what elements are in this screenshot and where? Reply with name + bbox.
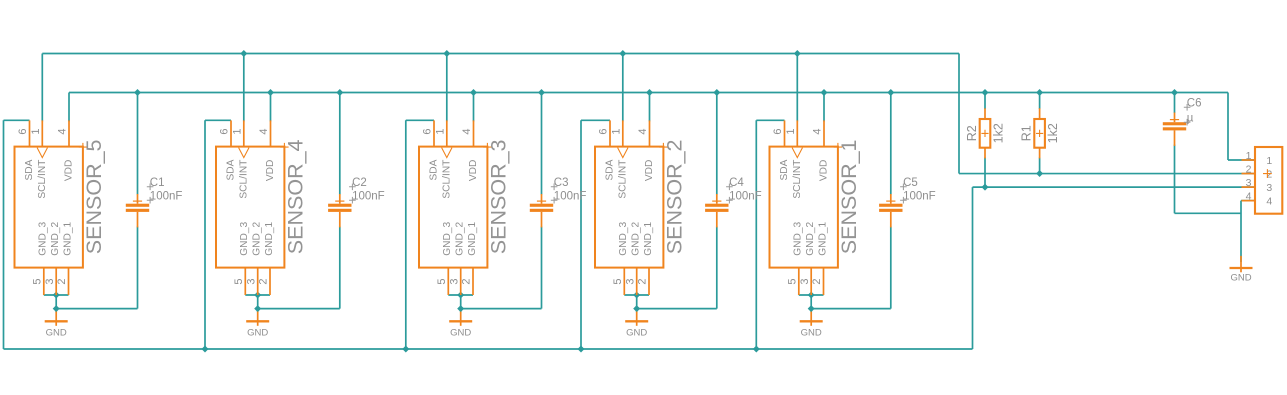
connector pin stub 3 — [1242, 186, 1256, 188]
SENSOR_1 body outline — [770, 147, 838, 268]
svg-text:C6: C6 — [1187, 98, 1202, 110]
svg-text:2: 2 — [811, 278, 823, 284]
svg-text:C3: C3 — [554, 177, 569, 189]
svg-text:3: 3 — [799, 278, 811, 284]
C4 bottom lead — [716, 212, 718, 228]
svg-text:GND_3: GND_3 — [442, 221, 453, 255]
SENSOR_1 pin 3 stub — [810, 268, 812, 295]
svg-text:3: 3 — [1246, 177, 1252, 189]
SENSOR_2 pin 3 stub — [636, 268, 638, 295]
svg-text:5: 5 — [233, 278, 245, 284]
SENSOR_3 origin cross — [483, 143, 491, 151]
SENSOR_3 body outline — [419, 147, 487, 268]
junction VDD x=985 — [982, 89, 989, 96]
svg-text:5: 5 — [31, 278, 43, 284]
junction VDD x=824.0 — [821, 89, 828, 96]
svg-text:3: 3 — [624, 278, 636, 284]
ground symbol GND — [45, 312, 68, 339]
wire SDA from SENSOR_2 pin6 — [581, 119, 610, 121]
svg-text:R2: R2 — [965, 125, 979, 141]
svg-text:GND: GND — [626, 328, 647, 339]
junction SDA bus x=405.8 — [402, 346, 409, 353]
SENSOR_5 body outline — [15, 147, 83, 268]
SENSOR_4 pin 1 marker — [239, 148, 249, 158]
junction GND cap tie SENSOR_4 — [254, 305, 261, 312]
SENSOR_4 pin 2 stub — [269, 268, 271, 295]
wire SDA from SENSOR_3 pin6 — [406, 119, 434, 121]
svg-text:VDD: VDD — [64, 160, 75, 182]
svg-text:2: 2 — [637, 278, 649, 284]
svg-text:GND: GND — [46, 328, 67, 339]
svg-text:5: 5 — [436, 278, 448, 284]
wire VDD drop to R2 — [984, 93, 986, 110]
SENSOR_2 origin cross — [659, 143, 667, 151]
ground symbol GND — [449, 312, 472, 339]
wire R1 bottom to SCL line — [1039, 158, 1041, 174]
C5 bottom plate — [879, 209, 902, 212]
C3 bottom plate — [530, 209, 553, 212]
svg-text:4: 4 — [637, 129, 649, 135]
svg-text:GND_1: GND_1 — [467, 221, 478, 255]
SENSOR_5 pin 6 stub — [29, 120, 31, 146]
wire GND lead SENSOR_4 — [257, 295, 259, 312]
SENSOR_3 pin 2 stub — [472, 268, 474, 295]
svg-text:GND_1: GND_1 — [264, 221, 275, 255]
C1 origin cross — [133, 200, 142, 202]
SENSOR_4 pin 6 stub — [230, 120, 232, 146]
GND bar — [449, 320, 472, 322]
svg-text:SCL/INT: SCL/INT — [238, 160, 249, 199]
junction VDD x=339.8 — [336, 89, 343, 96]
C1 top lead — [137, 194, 139, 204]
junction SCL x=797.3 — [794, 50, 801, 57]
C1 top plate — [126, 204, 149, 207]
C6 top plate — [1163, 122, 1186, 125]
svg-text:2: 2 — [1246, 163, 1252, 175]
wire GND to C5 bottom — [811, 308, 891, 310]
wire VDD drop to C1 — [137, 93, 139, 195]
R1 bottom lead — [1039, 148, 1041, 159]
SENSOR_4 origin cross — [280, 143, 288, 151]
svg-text:SDA: SDA — [429, 159, 440, 180]
SENSOR_2 pin 1 marker — [618, 148, 628, 158]
svg-text:VDD: VDD — [819, 160, 830, 182]
IC SENSOR_4 — [216, 120, 308, 295]
svg-text:C5: C5 — [903, 177, 918, 189]
SENSOR_1 pin 5 stub — [798, 268, 800, 295]
wire SDA from SENSOR_1 pin6 — [756, 119, 784, 121]
svg-text:SENSOR_4: SENSOR_4 — [284, 139, 308, 254]
C1 value label — [147, 197, 154, 204]
IC SENSOR_5 — [15, 120, 107, 295]
capacitor C1 — [126, 177, 183, 227]
resistor R2 — [965, 108, 1006, 158]
C2 value label — [349, 197, 356, 204]
wire SCL drop to SENSOR_5 pin1 — [41, 54, 43, 122]
wire VDD drop to R1 — [1039, 93, 1041, 110]
C5 origin cross — [886, 200, 895, 202]
svg-text:1: 1 — [785, 129, 797, 135]
junction R1 bottom / SCL — [1036, 170, 1043, 177]
C4 value label — [726, 197, 733, 204]
wire C6 bottom drop — [1174, 145, 1176, 214]
junction GND pins SENSOR_3 — [457, 292, 464, 299]
svg-text:1: 1 — [1246, 150, 1252, 162]
wire GND lead SENSOR_1 — [810, 295, 812, 312]
wire GND lead SENSOR_5 — [55, 295, 57, 312]
wire SCL drop to SENSOR_1 pin1 — [796, 54, 798, 122]
svg-text:100nF: 100nF — [352, 191, 385, 203]
C6 value label — [1184, 119, 1191, 126]
wire SDA vertical drop SENSOR_4 — [204, 120, 206, 349]
SENSOR_5 pin 1 marker — [37, 148, 47, 158]
SENSOR_4 body outline — [216, 147, 284, 268]
C5 top plate — [879, 204, 902, 207]
svg-text:GND: GND — [801, 328, 822, 339]
svg-text:3: 3 — [245, 278, 257, 284]
svg-text:SDA: SDA — [605, 159, 616, 180]
svg-text:GND: GND — [450, 328, 471, 339]
svg-text:6: 6 — [598, 129, 610, 135]
SENSOR_4 pin 4 stub — [270, 120, 272, 146]
svg-text:C4: C4 — [729, 177, 744, 189]
wire GND pins tie SENSOR_4 — [245, 294, 270, 296]
connector origin cross — [1263, 169, 1272, 178]
svg-text:SENSOR_5: SENSOR_5 — [82, 139, 106, 254]
wire VDD drop to SENSOR_5 pin4 — [68, 93, 70, 122]
C5 bottom lead — [890, 212, 892, 228]
R2 body — [980, 119, 991, 148]
svg-text:5: 5 — [786, 278, 798, 284]
junction SDA bus x=581 — [578, 346, 585, 353]
svg-text:1: 1 — [434, 129, 446, 135]
wire GND to C3 bottom — [461, 308, 542, 310]
svg-text:3: 3 — [1266, 182, 1272, 194]
junction SCL x=622.8 — [619, 50, 626, 57]
C5 name label — [900, 184, 907, 191]
SENSOR_2 pin 6 stub — [609, 120, 611, 146]
wire SDA to connector pin3 — [973, 186, 1256, 188]
C2 top plate — [328, 204, 351, 207]
svg-text:1k2: 1k2 — [992, 123, 1006, 143]
svg-text:4: 4 — [812, 129, 824, 135]
wire SDA from SENSOR_4 pin6 — [205, 119, 231, 121]
wire GND pins tie SENSOR_5 — [44, 294, 69, 296]
wire GND to C2 bottom — [258, 308, 340, 310]
junction VDD x=1174.5 — [1171, 89, 1178, 96]
wire SDA vertical drop SENSOR_5 — [3, 120, 5, 349]
wire VDD drop to SENSOR_4 pin4 — [270, 93, 272, 122]
C2 name label — [349, 184, 356, 191]
C3 origin cross — [537, 200, 546, 202]
wire GND lead SENSOR_2 — [636, 295, 638, 312]
wire VDD drop to C6 — [1174, 93, 1176, 114]
svg-text:SDA: SDA — [779, 159, 790, 180]
wire SCL horizontal top bus — [42, 53, 959, 55]
wire VDD horizontal bus — [69, 92, 1228, 94]
SENSOR_3 pin 1 marker — [442, 148, 452, 158]
svg-text:6: 6 — [422, 129, 434, 135]
capacitor C4 — [705, 177, 762, 227]
GND lead — [460, 312, 462, 326]
svg-text:SDA: SDA — [24, 159, 35, 180]
wire VDD drop to C4 — [716, 93, 718, 195]
svg-text:4: 4 — [1246, 190, 1252, 202]
svg-text:GND_1: GND_1 — [643, 221, 654, 255]
wire C5 bottom riser — [890, 227, 892, 309]
SENSOR_1 pin 2 stub — [823, 268, 825, 295]
wire VDD drop to SENSOR_2 pin4 — [649, 93, 651, 122]
junction GND pins SENSOR_2 — [633, 292, 640, 299]
svg-text:4: 4 — [461, 129, 473, 135]
svg-text:µ: µ — [1187, 113, 1194, 125]
wire VDD drop to C3 — [541, 93, 543, 195]
GND bar — [246, 320, 269, 322]
C1 bottom plate — [126, 209, 149, 212]
C3 value label — [551, 197, 558, 204]
svg-text:3: 3 — [44, 278, 56, 284]
svg-text:GND_3: GND_3 — [239, 221, 250, 255]
R1 top lead — [1039, 108, 1041, 119]
svg-text:GND_1: GND_1 — [62, 221, 73, 255]
wire SCL drop to SENSOR_2 pin1 — [622, 54, 624, 122]
C4 top plate — [705, 204, 728, 207]
svg-text:R1: R1 — [1019, 125, 1033, 141]
junction VDD x=890.8 — [887, 89, 894, 96]
wire SCL drop to SENSOR_4 pin1 — [243, 54, 245, 122]
GND lead — [1240, 256, 1242, 272]
C3 top plate — [530, 204, 553, 207]
svg-text:1: 1 — [1266, 155, 1272, 167]
svg-text:GND_2: GND_2 — [631, 221, 642, 255]
C4 origin cross — [712, 200, 721, 202]
wire GND to C1 bottom — [56, 308, 137, 310]
svg-text:SENSOR_2: SENSOR_2 — [663, 139, 687, 254]
wire SDA vertical drop SENSOR_1 — [755, 120, 757, 349]
svg-text:SENSOR_1: SENSOR_1 — [837, 139, 861, 254]
GND lead — [55, 312, 57, 326]
C1 name label — [147, 184, 154, 191]
junction GND cap tie SENSOR_3 — [457, 305, 464, 312]
C3 bottom lead — [541, 212, 543, 228]
SENSOR_2 body outline — [595, 147, 663, 268]
wire VDD drop to SENSOR_1 pin4 — [823, 93, 825, 122]
wire SCL right riser — [958, 54, 960, 174]
GND bar — [800, 320, 823, 322]
wire SCL drop to SENSOR_3 pin1 — [446, 54, 448, 122]
wire SCL to connector pin2 — [959, 173, 1255, 175]
ground symbol GND — [800, 312, 823, 339]
svg-text:6: 6 — [17, 129, 29, 135]
R1 origin cross — [1036, 130, 1043, 137]
SENSOR_2 pin 2 stub — [648, 268, 650, 295]
svg-text:100nF: 100nF — [150, 191, 183, 203]
junction VDD x=716.8 — [713, 89, 720, 96]
SENSOR_5 pin 5 stub — [43, 268, 45, 295]
svg-text:GND_3: GND_3 — [38, 221, 49, 255]
SENSOR_1 pin 6 stub — [784, 120, 786, 146]
C3 top lead — [541, 194, 543, 204]
R2 top lead — [984, 108, 986, 119]
junction VDD x=541.5 — [538, 89, 545, 96]
ground symbol GND — [1230, 256, 1253, 283]
svg-text:SCL/INT: SCL/INT — [441, 160, 452, 199]
wire GND lead SENSOR_3 — [460, 295, 462, 312]
junction GND pins SENSOR_1 — [808, 292, 815, 299]
wire VDD drop to C2 — [339, 93, 341, 195]
svg-text:GND_2: GND_2 — [50, 221, 61, 255]
C5 value label — [900, 197, 907, 204]
C5 top lead — [890, 194, 892, 204]
svg-text:C2: C2 — [352, 177, 367, 189]
resistor R1 — [1019, 108, 1060, 158]
svg-text:100nF: 100nF — [554, 191, 587, 203]
wire GND pins tie SENSOR_3 — [448, 294, 473, 296]
capacitor C5 — [879, 177, 936, 227]
junction SCL x=243.8 — [240, 50, 247, 57]
svg-text:GND: GND — [1230, 272, 1251, 283]
wire connector pin4 down to GND — [1240, 201, 1242, 262]
svg-text:VDD: VDD — [468, 160, 479, 182]
svg-text:1k2: 1k2 — [1046, 123, 1060, 143]
wire VDD drop to SENSOR_3 pin4 — [473, 93, 475, 122]
wire C1 bottom riser — [137, 227, 139, 309]
C1 bottom lead — [137, 212, 139, 228]
SENSOR_2 pin 1 stub — [622, 120, 624, 146]
GND lead — [257, 312, 259, 326]
connector pin stub 1 — [1242, 159, 1256, 161]
R2 origin cross — [981, 130, 988, 137]
junction VDD x=649.5 — [646, 89, 653, 96]
wire C3 bottom riser — [541, 227, 543, 309]
SENSOR_5 pin 1 stub — [41, 120, 43, 146]
capacitor C6 — [1163, 98, 1202, 146]
C2 origin cross — [335, 200, 344, 202]
SENSOR_2 pin 5 stub — [623, 268, 625, 295]
junction R2 bottom / SDA — [982, 184, 989, 191]
ground symbol GND — [246, 312, 269, 339]
svg-text:GND_2: GND_2 — [455, 221, 466, 255]
C6 name label — [1184, 104, 1191, 111]
wire SDA bottom bus — [4, 348, 973, 350]
connector pin stub 4 — [1242, 200, 1256, 202]
wire C6 to pin4 riser — [1175, 212, 1242, 214]
C6 bottom lead — [1174, 130, 1176, 146]
SENSOR_1 pin 4 stub — [823, 120, 825, 146]
svg-text:C1: C1 — [150, 177, 165, 189]
connector J1 body — [1255, 147, 1282, 214]
svg-text:SCL/INT: SCL/INT — [37, 160, 48, 199]
junction GND cap tie SENSOR_2 — [633, 305, 640, 312]
svg-text:GND_2: GND_2 — [252, 221, 263, 255]
svg-text:2: 2 — [258, 278, 270, 284]
IC SENSOR_1 — [770, 120, 862, 295]
junction SCL x=446.8 — [443, 50, 450, 57]
SENSOR_3 pin 1 stub — [446, 120, 448, 146]
C6 bottom plate — [1163, 127, 1186, 130]
SENSOR_5 pin 3 stub — [55, 268, 57, 295]
C2 top lead — [339, 194, 341, 204]
C6 top lead — [1174, 113, 1176, 123]
svg-text:4: 4 — [258, 129, 270, 135]
IC SENSOR_3 — [419, 120, 511, 295]
connector J1 — [1242, 147, 1283, 214]
wire VDD right riser — [1227, 93, 1229, 161]
svg-text:SCL/INT: SCL/INT — [792, 160, 803, 199]
svg-text:5: 5 — [612, 278, 624, 284]
junction GND pins SENSOR_5 — [53, 292, 60, 299]
junction VDD x=473.5 — [470, 89, 477, 96]
svg-text:VDD: VDD — [644, 160, 655, 182]
SENSOR_3 pin 6 stub — [433, 120, 435, 146]
SENSOR_3 pin 5 stub — [447, 268, 449, 295]
SENSOR_1 origin cross — [834, 143, 842, 151]
C2 bottom lead — [339, 212, 341, 228]
R1 body — [1034, 119, 1045, 148]
SENSOR_5 pin 4 stub — [68, 120, 70, 146]
SENSOR_4 pin 1 stub — [243, 120, 245, 146]
SENSOR_2 pin 4 stub — [649, 120, 651, 146]
GND lead — [810, 312, 812, 326]
svg-text:1: 1 — [30, 129, 42, 135]
junction GND cap tie SENSOR_5 — [53, 305, 60, 312]
GND bar — [1230, 267, 1253, 269]
capacitor C2 — [328, 177, 385, 227]
wire C4 bottom riser — [716, 227, 718, 309]
svg-text:GND_2: GND_2 — [805, 221, 816, 255]
ground symbol GND — [625, 312, 648, 339]
SENSOR_4 pin 3 stub — [257, 268, 259, 295]
svg-text:100nF: 100nF — [903, 191, 936, 203]
wire VDD drop to C5 — [890, 93, 892, 195]
junction VDD x=270.5 — [267, 89, 274, 96]
connector pin stub 2 — [1242, 173, 1256, 175]
C3 name label — [551, 184, 558, 191]
svg-text:100nF: 100nF — [729, 191, 762, 203]
wire SDA right riser — [972, 187, 974, 349]
svg-text:2: 2 — [56, 278, 68, 284]
junction SDA bus x=205 — [202, 346, 209, 353]
junction SDA bus x=756.3 — [753, 346, 760, 353]
wire GND pins tie SENSOR_2 — [624, 294, 649, 296]
R2 bottom lead — [984, 148, 986, 159]
C4 bottom plate — [705, 209, 728, 212]
junction VDD x=137.5 — [134, 89, 141, 96]
junction GND pins SENSOR_4 — [254, 292, 261, 299]
SENSOR_1 pin 1 stub — [796, 120, 798, 146]
svg-text:1: 1 — [610, 129, 622, 135]
svg-text:1: 1 — [231, 129, 243, 135]
svg-text:6: 6 — [772, 129, 784, 135]
wire C2 bottom riser — [339, 227, 341, 309]
SENSOR_5 pin 2 stub — [68, 268, 70, 295]
svg-text:4: 4 — [1266, 195, 1272, 207]
wire GND pins tie SENSOR_1 — [799, 294, 824, 296]
svg-text:2: 2 — [461, 278, 473, 284]
wire VDD to connector pin1 — [1228, 159, 1255, 161]
wire SDA vertical drop SENSOR_3 — [405, 120, 407, 349]
svg-text:GND_1: GND_1 — [817, 221, 828, 255]
wire R2 bottom to SDA line — [984, 158, 986, 188]
C4 name label — [726, 184, 733, 191]
svg-text:GND_3: GND_3 — [618, 221, 629, 255]
svg-text:GND_3: GND_3 — [793, 221, 804, 255]
C2 bottom plate — [328, 209, 351, 212]
GND bar — [625, 320, 648, 322]
wire SDA vertical drop SENSOR_2 — [580, 120, 582, 349]
svg-text:VDD: VDD — [265, 160, 276, 182]
SENSOR_1 pin 1 marker — [792, 148, 802, 158]
